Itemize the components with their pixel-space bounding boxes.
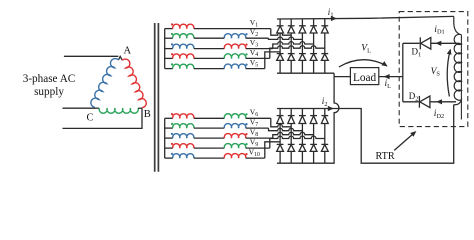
bridge 1 leg 1 diodes D11a/b	[279, 19, 281, 26]
bridge 2 leg 2 diodes D22a/b	[290, 109, 292, 116]
load box	[350, 68, 378, 85]
secondary winding V4	[165, 57, 173, 59]
bridge 1 leg 3 diodes D13a/b	[301, 19, 303, 26]
bridge 2 leg 3 diodes D23a/b	[301, 109, 303, 116]
transformer core (double line)	[154, 23, 156, 172]
rectifier bridge 2 positive rail (top)	[277, 105, 454, 164]
current arrow iD2	[436, 99, 442, 104]
secondary winding V2	[165, 37, 173, 39]
arrowhead of VL arc	[381, 61, 387, 66]
D1/D2 junction vertical	[402, 43, 404, 102]
primary winding A-B (red)	[122, 59, 146, 108]
secondary winding V1	[165, 28, 173, 30]
arrowhead of VS arc	[447, 49, 452, 55]
primary delta apex joint	[119, 56, 123, 60]
secondary winding V9	[165, 147, 173, 149]
current arrow iD1	[435, 41, 441, 46]
bridge 2 leg 4 diodes D24a/b	[313, 109, 315, 116]
voltage arc VS along winding	[447, 50, 450, 97]
secondary winding V10	[165, 157, 173, 159]
secondary winding V6	[165, 117, 173, 119]
svg-text:supply: supply	[34, 86, 64, 98]
current arrow i1	[331, 16, 337, 21]
bridge 2 leg 1 diodes D21a/b	[279, 109, 281, 116]
current arrow i2	[328, 106, 334, 111]
rotor field winding (coil)	[460, 35, 462, 120]
secondary winding V3	[165, 48, 173, 50]
wire: bottom supply line to node B	[63, 108, 143, 128]
rectifier bridge 1 positive rail (top)	[277, 16, 454, 19]
bridge 1 leg 5 diodes D15a/b	[324, 19, 326, 26]
secondary winding bus (bottom group)	[164, 118, 166, 158]
secondary winding V8	[165, 137, 173, 139]
wire: middle supply line to node C	[63, 107, 95, 109]
bridge 2 leg 5 diodes D25a/b	[324, 109, 326, 116]
bridge 1 leg 2 diodes D12a/b	[290, 19, 292, 26]
secondary winding V5	[165, 68, 173, 70]
wire: bridge output to load	[334, 76, 350, 78]
svg-text:3-phase AC: 3-phase AC	[23, 73, 76, 85]
bridge 2 output vertical with crossover hop	[277, 73, 339, 163]
svg-text:RTR: RTR	[376, 151, 395, 162]
secondary winding V7	[165, 127, 173, 129]
RTR pointer arrow	[394, 132, 415, 150]
svg-text:Load: Load	[353, 72, 377, 84]
svg-text:B: B	[144, 109, 151, 120]
svg-text:A: A	[124, 45, 132, 56]
primary winding A-C (blue)	[91, 59, 119, 108]
diode D1	[403, 42, 420, 44]
diode D2	[403, 101, 419, 103]
current arrow iL into load	[384, 74, 390, 79]
secondary winding bus (top group)	[164, 29, 166, 69]
dashed box (rotor circuit)	[399, 12, 468, 127]
primary winding C-B (green)	[95, 107, 100, 109]
rectifier bridge 1 negative rail (bottom)	[277, 72, 334, 74]
bridge 1 leg 4 diodes D14a/b	[313, 19, 315, 26]
wire: load to D1/D2 junction	[379, 76, 403, 78]
svg-text:C: C	[87, 113, 94, 124]
wire: top supply line to node A	[64, 55, 119, 57]
voltage arc VL over load	[339, 60, 387, 67]
